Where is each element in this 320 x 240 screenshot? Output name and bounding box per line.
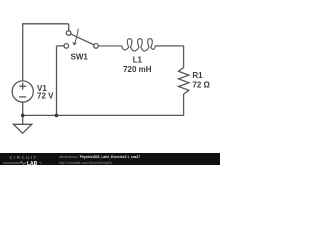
switch SW1 actuation arrow [73,29,79,45]
wire V1 bottom to ground node [22,102,24,115]
wire switch lower throw down [56,46,58,116]
ground [13,115,31,133]
svg-text:LAB: LAB [27,161,38,165]
svg-text:72 V: 72 V [37,92,54,101]
switch SW1 [64,31,98,49]
resistor R1 [179,68,189,95]
label L1 value [123,56,152,74]
svg-text:72 Ω: 72 Ω [192,81,210,90]
svg-text:L1: L1 [133,56,143,65]
watermark bar [0,153,220,165]
watermark text line1 [59,155,140,159]
svg-text:720 mH: 720 mH [123,65,152,74]
wire inductor to right corner [156,45,184,47]
wire top rail [23,23,69,25]
watermark logo CIRCUIT [10,155,38,160]
junction node ground [21,114,25,118]
wire right column bottom [183,94,185,115]
wire right column top [183,46,185,68]
svg-text:R1: R1 [192,71,203,80]
svg-text:SW1: SW1 [71,52,89,61]
watermark logo LAB row [3,161,43,165]
wire switch top drop [68,24,70,31]
voltage source V1 [12,81,33,102]
watermark text line2 [59,161,112,165]
inductor L1 [98,39,158,51]
wire bottom rail [23,114,184,116]
junction node switch throw [55,114,59,118]
wire switch lower throw stub [57,45,65,47]
label V1 value [37,84,54,101]
label R1 value [192,71,210,90]
wire left column [22,23,24,81]
